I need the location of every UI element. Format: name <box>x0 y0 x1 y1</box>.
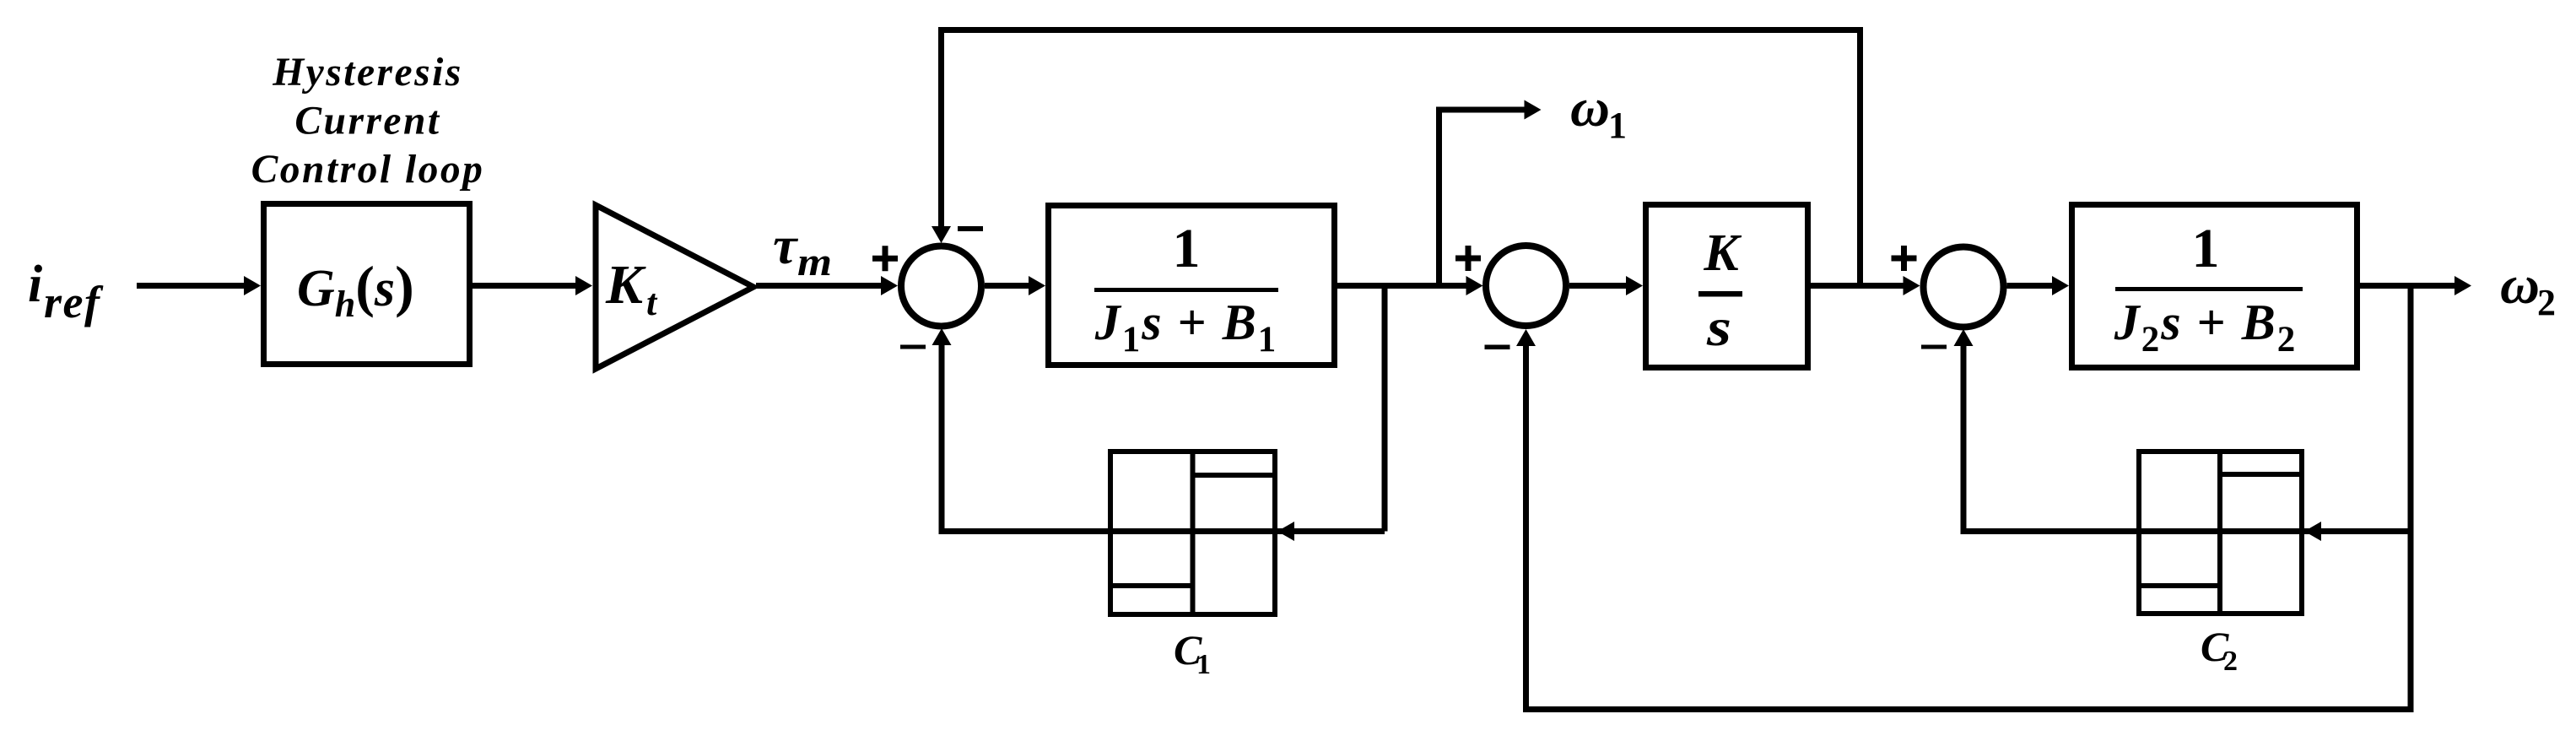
svg-text:s: s <box>1706 297 1731 357</box>
svg-text:J1s + B1: J1s + B1 <box>1094 295 1278 360</box>
svg-text:K: K <box>1703 224 1742 282</box>
svg-text:ref: ref <box>44 277 104 327</box>
svg-text:1: 1 <box>2192 218 2220 279</box>
svg-text:Gh(s): Gh(s) <box>297 254 414 325</box>
svg-text:2: 2 <box>2537 282 2556 323</box>
svg-text:Control loop: Control loop <box>251 148 485 192</box>
svg-text:1: 1 <box>1608 105 1627 146</box>
svg-text:Current: Current <box>294 100 440 143</box>
svg-text:t: t <box>646 282 658 323</box>
svg-text:2: 2 <box>2223 646 2238 677</box>
svg-text:1: 1 <box>1196 649 1211 680</box>
svg-text:m: m <box>797 240 832 284</box>
svg-text:i: i <box>28 256 42 313</box>
svg-text:ω: ω <box>2500 255 2540 316</box>
svg-text:τ: τ <box>773 215 799 275</box>
svg-text:ω: ω <box>1570 78 1610 138</box>
svg-text:1: 1 <box>1173 218 1201 279</box>
svg-text:Hysteresis: Hysteresis <box>272 51 463 95</box>
svg-text:K: K <box>605 254 646 316</box>
svg-text:J2s + B2: J2s + B2 <box>2114 295 2298 360</box>
